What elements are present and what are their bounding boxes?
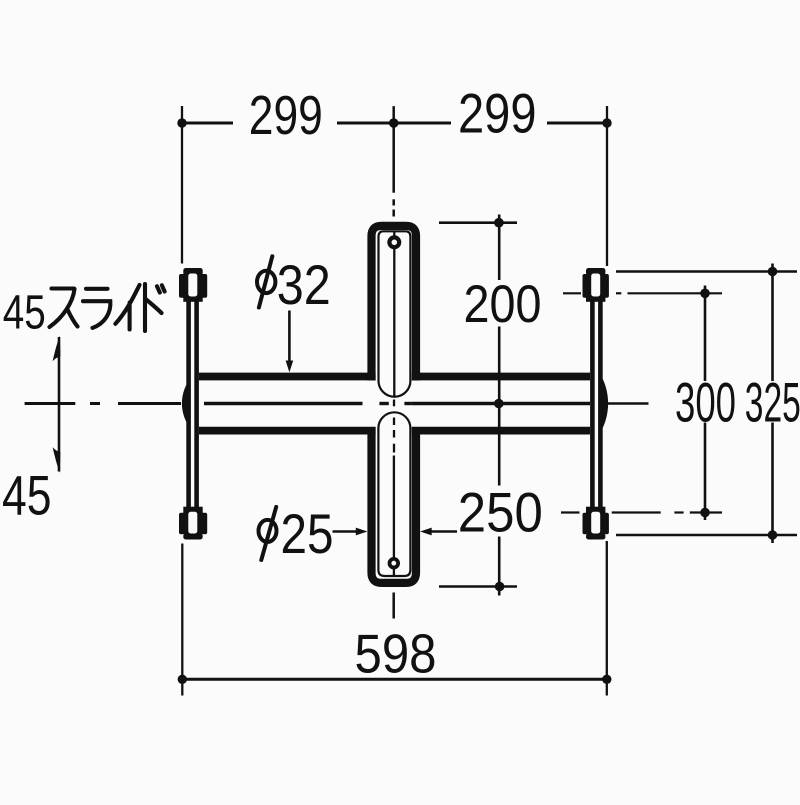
45 slide arrowhead bottom: [53, 447, 61, 472]
bottom dimension extension line left: [181, 544, 183, 696]
dimension 325 dots: [768, 267, 778, 540]
dimension 325 top extension: [616, 270, 797, 273]
svg-text:25: 25: [281, 503, 334, 565]
phi symbol of phi32: [257, 271, 275, 293]
phi32 leader line and arrowhead: [288, 311, 291, 364]
dimension 300 dots: [700, 289, 710, 518]
phi25 leader stub right with arrowhead: [420, 528, 432, 536]
phi symbol of phi25: [259, 520, 277, 542]
svg-text:325: 325: [745, 372, 800, 434]
svg-text:45: 45: [3, 287, 46, 340]
dimension 300 bottom extension dash-dot: [561, 511, 722, 513]
vertical centerline at crossing: [393, 400, 395, 453]
bottom dimension extension line right: [606, 541, 608, 696]
phi25 leader line left with arrowhead: [333, 530, 359, 533]
bottom tube slot dome: [378, 412, 410, 428]
tube interior white mask: [376, 230, 412, 579]
dimension 300 top extension dash-dot: [563, 292, 722, 294]
svg-text:299: 299: [249, 84, 323, 146]
left top fitting: [179, 268, 207, 302]
bar bottom wall: [199, 427, 590, 435]
dimension 325 vertical line: [771, 264, 774, 544]
45 slide arrow line: [58, 337, 61, 472]
bottom dimension line 598: [182, 678, 607, 681]
svg-text:300: 300: [675, 372, 736, 434]
bar top wall: [199, 373, 590, 381]
vertical centerline inside bottom tube: [393, 456, 395, 576]
bottom dimension dots: [178, 675, 612, 684]
horizontal centerline: [25, 402, 649, 405]
top tube slot dome: [379, 381, 411, 397]
right bottom fitting: [583, 507, 609, 540]
left rail lens: [182, 378, 191, 429]
bottom tube hole: [390, 559, 399, 568]
vertical centerline inside top tube: [393, 231, 395, 397]
svg-text:32: 32: [277, 254, 331, 316]
top dimension dots: [177, 118, 611, 128]
katakana do: [145, 284, 165, 331]
svg-text:250: 250: [458, 481, 543, 544]
dimension 200/250 vertical line: [498, 215, 501, 596]
katakana ra: [83, 289, 110, 328]
bottom tube inner slot: [378, 428, 410, 577]
top tube inner slot: [379, 231, 411, 381]
svg-text:45: 45: [2, 463, 52, 526]
katakana su: [50, 289, 78, 328]
left rail lines: [191, 366, 194, 442]
vertical centerline top segment: [392, 106, 395, 216]
dimension 325 bottom extension: [616, 534, 797, 537]
bottom tube outer wall: [372, 427, 417, 583]
45 slide arrowhead top: [53, 336, 61, 361]
top tube hole: [389, 237, 399, 247]
dimension 200 top extension: [439, 221, 517, 224]
katakana i: [115, 285, 139, 330]
top dimension extension line right: [606, 106, 608, 266]
top dimension extension line left: [181, 106, 183, 264]
top dimension line 299+299: [182, 122, 607, 125]
dimension 200/250 dots: [494, 218, 504, 591]
right rail lens: [602, 378, 608, 429]
top tube outer wall: [372, 226, 417, 381]
left bottom fitting: [179, 507, 207, 540]
dimension 250 bottom extension: [439, 585, 517, 588]
right top fitting: [583, 268, 609, 302]
vertical centerline below bottom tube: [392, 593, 395, 619]
svg-text:299: 299: [458, 81, 537, 144]
right rail lines: [595, 366, 598, 442]
dimension 300 vertical line: [704, 286, 707, 521]
svg-text:598: 598: [355, 624, 437, 685]
svg-text:200: 200: [464, 275, 542, 334]
horizontal centerline inside crossing: [379, 402, 412, 405]
